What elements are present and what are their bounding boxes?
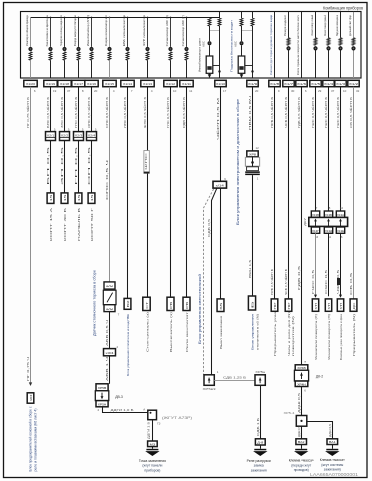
cluster lamp column R17 [328, 12, 330, 78]
park brake switch SA1 [103, 290, 116, 305]
svg-text:ЧЁРН 0,5 М: ЧЁРН 0,5 М [216, 97, 220, 140]
svg-text:Указат повор правый: Указат повор правый [323, 15, 327, 36]
svg-text:РВ: РВ [169, 301, 173, 308]
connector pin Х1/16 [85, 80, 98, 86]
wire W11e [260, 385, 262, 439]
wire W6a [109, 312, 111, 349]
block arrow 16 [314, 219, 317, 222]
svg-text:Х1/4: Х1/4 [324, 82, 333, 86]
grey link node 11 [210, 30, 220, 32]
ground G3 [301, 445, 303, 449]
svg-text:ДС: ДС [352, 303, 356, 310]
svg-text:ЖПС 0,5 ЧЁРН Б: ЖПС 0,5 ЧЁРН Б [143, 97, 147, 128]
cluster lamp column L9 [170, 17, 172, 19]
svg-text:СБ 0,5 ЧЁРН Б: СБ 0,5 ЧЁРН Б [349, 97, 353, 128]
svg-text:Резерв индикат: Резерв индикат [283, 14, 287, 36]
relay K2 connector lower [295, 381, 308, 387]
svg-text:(жгут системы: (жгут системы [321, 463, 344, 467]
svg-text:ГП 0,5: ГП 0,5 [74, 146, 78, 185]
indicator lamp HL12 [240, 41, 244, 45]
svg-text:ЛПС 0,5 ЧЁРН Б: ЛПС 0,5 ЧЁРН Б [123, 97, 127, 128]
wire W11 [220, 87, 222, 182]
svg-text:ХР5-4: ХР5-4 [284, 411, 295, 415]
wire W17 lower [328, 233, 330, 296]
svg-text:СЖС 0,5: СЖС 0,5 [324, 269, 328, 294]
connector pin Х1/14 [121, 80, 134, 86]
svg-text:Сигнал руч торм и уровня тормо: Сигнал руч торм и уровня тормозн жидк [269, 14, 273, 75]
svg-text:АБС: АБС [234, 41, 238, 47]
svg-text:ГПС 0,5 ЧЁРН Б: ГПС 0,5 ЧЁРН Б [74, 97, 78, 128]
svg-text:СПС 0,5 ЧЁРН Б: СПС 0,5 ЧЁРН Б [105, 97, 109, 128]
svg-text:а/м: а/м [106, 284, 113, 288]
svg-text:Клемма «масса»: Клемма «масса» [289, 459, 314, 463]
cluster lamp column R16 [315, 12, 317, 78]
svg-text:а/м: а/м [106, 307, 113, 311]
svg-text:ЕВА сигнализатор: ЕВА сигнализатор [122, 15, 126, 46]
cluster lamp column R15 [301, 12, 303, 78]
svg-text:АБВ 0,5 Ч: АБВ 0,5 Ч [105, 320, 109, 346]
wire W4 [78, 87, 80, 193]
svg-text:Х1/19: Х1/19 [46, 82, 55, 86]
splice box ХЗ [148, 410, 157, 420]
svg-text:ГЖС 0,5: ГЖС 0,5 [311, 269, 315, 294]
svg-text:Стоп-сигналы (з): Стоп-сигналы (з) [145, 312, 149, 352]
svg-text:Боковые указ поворота и фон: Боковые указ поворота и фон [339, 314, 343, 360]
wire W2 [50, 87, 52, 193]
wire W5 [91, 87, 93, 193]
instrument cluster box U1 [21, 12, 362, 79]
svg-text:ОП 0,5: ОП 0,5 [87, 146, 91, 185]
wire W11d dashed [204, 189, 214, 375]
svg-text:ЧСБ 0,5 ЧЁРН Б: ЧСБ 0,5 ЧЁРН Б [284, 97, 288, 128]
terminal T3 [61, 193, 68, 204]
connector pin Х1/9 [247, 80, 258, 86]
svg-text:УП: УП [339, 303, 343, 310]
svg-text:Реле разгрузки: Реле разгрузки [247, 459, 271, 463]
svg-text:отопителя в сб (N): отопителя в сб (N) [255, 314, 259, 350]
svg-text:Х1/14: Х1/14 [123, 82, 132, 86]
svg-text:ГДБ 0,5 ЧЁРН Б: ГДБ 0,5 ЧЁРН Б [297, 97, 301, 128]
svg-text:УП: УП [327, 303, 331, 310]
ground lug box G3 [296, 439, 307, 445]
connector box X14 [213, 181, 227, 188]
bulb socket lower [247, 167, 259, 171]
wire W17 upper [328, 87, 330, 211]
terminal T19 [350, 299, 357, 311]
wire W3 [64, 87, 66, 193]
svg-text:Х2/2: Х2/2 [61, 133, 69, 137]
svg-text:Указатели поворота (Л): Указатели поворота (Л) [314, 314, 318, 360]
wire W8 [147, 87, 149, 298]
svg-text:15: 15 [90, 194, 94, 202]
svg-text:Блок управления электропакетом: Блок управления электропакетом и диагнос… [236, 99, 240, 225]
cluster lamp column L3 [64, 17, 66, 19]
svg-text:Указатели поворота (П): Указатели поворота (П) [327, 314, 331, 360]
bulb socket body [245, 157, 259, 166]
svg-text:УП: УП [314, 303, 318, 310]
svg-text:Клемма «масса»: Клемма «масса» [320, 458, 345, 462]
svg-text:СДБ 0,5: СДБ 0,5 [207, 218, 211, 237]
cluster lamp column R18 [340, 12, 342, 78]
wire W18 lower [340, 233, 342, 296]
wire W11b to terminal [220, 188, 222, 299]
svg-text:реле и плавкими вставками (К6: реле и плавкими вставками (К6 лист 4) [34, 409, 38, 472]
svg-text:Блок предохранителей основной: Блок предохранителей основной в сборе с [28, 406, 32, 471]
block pin lower Х13Г [311, 227, 319, 233]
svg-text:проводов): проводов) [294, 468, 309, 472]
wire W18 upper [340, 87, 342, 211]
svg-text:Указат повор левый: Указат повор левый [310, 15, 314, 36]
inline connector Х2/3 [74, 132, 84, 141]
svg-text:ПГ 0,75 Ч: ПГ 0,75 Ч [26, 357, 30, 381]
svg-text:10: 10 [340, 206, 344, 210]
block pin upper Х13А [336, 211, 344, 217]
svg-text:ПГ 0,75 ЧЁРН Б: ПГ 0,75 ЧЁРН Б [26, 97, 30, 128]
connector pin Х1/4 [323, 80, 334, 86]
svg-text:поворотов (N): поворотов (N) [291, 316, 295, 356]
terminal T14 [285, 299, 292, 311]
wire W15b left [301, 426, 303, 439]
svg-text:замка: замка [254, 464, 264, 468]
svg-text:ДДШ 0,5: ДДШ 0,5 [328, 424, 332, 437]
ground lug box G4 [327, 439, 338, 445]
svg-text:Выкл зажигания: Выкл зажигания [219, 316, 223, 349]
wire W16 lower [315, 233, 317, 296]
svg-text:Х1/18: Х1/18 [60, 82, 69, 86]
inline connector X3/4 [104, 349, 116, 356]
svg-text:Наружное освещение: Наружное освещение [335, 15, 339, 36]
link wire 12 [245, 65, 253, 67]
svg-text:ХР5Н: ХР5Н [98, 402, 107, 406]
svg-text:ГДБ 0,5: ГДБ 0,5 [297, 265, 301, 290]
terminal T11 [217, 299, 224, 312]
connector pin Х1/17 [72, 80, 85, 86]
cluster lamp column L4 [78, 17, 80, 19]
svg-text:LAА665А070000001: LAА665А070000001 [310, 472, 359, 477]
ground G1 [152, 447, 154, 449]
inline connector Х2/4 [87, 132, 97, 141]
block arrow 17 [327, 219, 330, 222]
wire W11c solid to relay [212, 188, 217, 375]
svg-text:(ЖГУТ А73Р): (ЖГУТ А73Р) [162, 416, 192, 420]
svg-text:Х1/2: Х1/2 [349, 82, 358, 86]
svg-text:ЗП 0,5: ЗП 0,5 [60, 146, 64, 185]
cluster lamp column R19 [353, 12, 355, 78]
inline connector Х2/2 [60, 132, 70, 141]
arrow to pin 12 [241, 73, 243, 75]
svg-text:Блок управления отопителем и к: Блок управления отопителем и конд НВА [126, 313, 130, 376]
cluster lamp column L1 [30, 18, 32, 47]
svg-text:Выключатель (з): Выключатель (з) [169, 312, 173, 352]
relay K3 connector upper [96, 384, 108, 391]
bulb socket connector ХР8 [247, 151, 258, 157]
svg-text:зажигания: зажигания [251, 468, 267, 472]
svg-text:БП 0,5: БП 0,5 [46, 146, 50, 185]
terminal T2 [47, 193, 54, 204]
svg-text:ЭУР сигнализатор: ЭУР сигнализатор [142, 15, 146, 46]
svg-text:Х1/3: Х1/3 [336, 82, 345, 86]
relay K3 [95, 391, 109, 401]
relay connector ХР5В3 [204, 375, 214, 386]
ground G2 [260, 445, 262, 449]
svg-text:МЗ: МЗ [150, 442, 156, 446]
svg-text:ЖПС: ЖПС [144, 153, 148, 170]
wire W15a [301, 387, 303, 416]
svg-text:ХР5н: ХР5н [255, 370, 265, 374]
svg-text:ВК: ВК [126, 300, 130, 308]
cluster lamp column L10 [186, 17, 188, 19]
svg-text:Прерыватель (N): Прерыватель (N) [352, 314, 356, 356]
relay K3 connector lower [96, 401, 108, 407]
cluster lamp column R13 [274, 12, 276, 78]
wire W14 [288, 87, 290, 299]
switch connector upper [104, 282, 115, 289]
svg-text:ПРБ 0,5 ЧЁРН Б: ПРБ 0,5 ЧЁРН Б [270, 97, 274, 128]
svg-text:Х13А: Х13А [337, 213, 344, 217]
svg-text:(жгут панели: (жгут панели [142, 464, 162, 468]
svg-text:Прерыватель указ: Прерыватель указ [273, 311, 277, 356]
svg-text:БПС 0,5 ЧЁРН Б: БПС 0,5 ЧЁРН Б [46, 97, 50, 128]
svg-text:19: 19 [53, 89, 57, 93]
svg-text:ХР5в3: ХР5в3 [203, 387, 216, 391]
link wire 11 [213, 65, 220, 67]
svg-text:ГЖС 0,5 ЧЁРН Б: ГЖС 0,5 ЧЁРН Б [311, 97, 315, 128]
svg-text:СПС 0,5 Ч: СПС 0,5 Ч [105, 160, 109, 200]
wire W10 [186, 87, 188, 298]
svg-text:Х1/9: Х1/9 [248, 82, 257, 86]
wire W15 [301, 87, 303, 365]
svg-text:ВА2: ВА2 [298, 440, 305, 444]
terminal T7 [124, 298, 131, 309]
svg-text:ПРБ 0,5 ЧЁРН Б: ПРБ 0,5 ЧЁРН Б [270, 269, 274, 295]
svg-text:ПР: ПР [273, 302, 277, 309]
svg-text:65: 65 [219, 302, 223, 310]
svg-text:КОНТ 15 А: КОНТ 15 А [49, 206, 53, 241]
wire link grey [214, 380, 255, 382]
arrow to pin 11 [209, 73, 211, 75]
warning module group U12 [241, 12, 243, 18]
svg-text:Х2/1: Х2/1 [47, 133, 55, 137]
svg-text:РДВ 0,5 ЧЁРН Б: РДВ 0,5 ЧЁРН Б [182, 97, 186, 128]
block pin upper Х13В [311, 211, 319, 217]
svg-text:15: 15 [49, 194, 53, 202]
wire W15c right [307, 422, 333, 439]
svg-text:Х1/12: Х1/12 [166, 82, 175, 86]
cluster lamp column L7 [127, 17, 129, 19]
connector pin Х1/5 [310, 80, 321, 86]
svg-text:Х1/5: Х1/5 [311, 82, 320, 86]
ground lug box G2 [255, 439, 265, 445]
svg-text:20: 20 [255, 89, 259, 93]
driver box A11 [206, 56, 213, 73]
wire W1 fuse feed [30, 87, 32, 383]
wire W12b [252, 175, 254, 296]
inline splice S8 [144, 151, 149, 174]
svg-text:30: 30 [29, 394, 33, 402]
svg-text:А: А [143, 407, 145, 411]
wire W6 park brake [109, 87, 111, 282]
svg-text:Ремни безопасн не пристёгнуты: Ремни безопасн не пристёгнуты [45, 15, 49, 47]
svg-text:Х1/17: Х1/17 [74, 82, 83, 86]
terminal T12 [248, 296, 255, 310]
internal supply bus [31, 17, 220, 19]
block pin lower Х13Д [324, 227, 332, 233]
svg-text:Х1/8: Х1/8 [270, 82, 279, 86]
connector pin Х1/18 [58, 80, 71, 86]
svg-text:Х13Д: Х13Д [325, 229, 332, 233]
svg-text:Х13Б: Х13Б [325, 213, 332, 217]
svg-text:20: 20 [94, 89, 98, 93]
svg-text:КОНТ 50 Г: КОНТ 50 Г [90, 207, 94, 241]
terminal T4 [75, 193, 82, 204]
svg-text:ХР5В: ХР5В [98, 386, 107, 390]
svg-text:15: 15 [63, 194, 67, 202]
svg-text:17: 17 [223, 89, 227, 93]
svg-text:ГЖС 0,5 ЧЁРН Б: ГЖС 0,5 ЧЁРН Б [336, 97, 340, 128]
svg-text:12: 12 [255, 146, 259, 150]
svg-text:Комбинация приборов: Комбинация приборов [323, 5, 363, 11]
svg-text:Х2/4: Х2/4 [88, 133, 96, 137]
svg-text:ЧСБ 0,5 ЧЁРН Б: ЧСБ 0,5 ЧЁРН Б [284, 269, 288, 295]
svg-text:15: 15 [77, 194, 81, 202]
relay K2 connector upper [295, 365, 308, 371]
svg-text:Перегрев охлажд жидкости: Перегрев охлажд жидкости [59, 15, 63, 46]
terminal T17 [325, 299, 331, 311]
svg-text:Резервн сигнализатор вкл: Резервн сигнализатор вкл [104, 15, 108, 46]
svg-text:Х1/13: Х1/13 [143, 82, 152, 86]
svg-text:Сигнализатор АБС (Т): Сигнализатор АБС (Т) [181, 15, 185, 46]
svg-text:Иммобилайзер (АПС): Иммобилайзер (АПС) [86, 15, 90, 46]
svg-text:10: 10 [343, 89, 347, 93]
svg-text:Сигн превыш скорости авто боле: Сигн превыш скорости авто более км/ч [296, 15, 300, 75]
connector pin Х1/13 [141, 80, 154, 86]
driver box A12 [238, 56, 245, 73]
cluster lamp column L5 [91, 17, 93, 19]
svg-text:НВМ 0,5 БЧ: НВМ 0,5 БЧ [248, 96, 252, 130]
svg-text:Блок управления светотехникой: Блок управления светотехникой [198, 274, 202, 344]
wire W9 [170, 87, 172, 298]
svg-text:32: 32 [356, 89, 360, 93]
svg-text:Х13Е: Х13Е [337, 229, 344, 233]
wire W6c to ground run [103, 407, 148, 413]
svg-text:ГЖС 0,5 ЧЁРН Б: ГЖС 0,5 ЧЁРН Б [324, 97, 328, 128]
svg-text:Монитор из общего провода: Монитор из общего провода [25, 15, 29, 46]
cluster lamp column L2 [50, 17, 52, 19]
wire W7 [127, 87, 129, 299]
svg-text:Точка заземления: Точка заземления [139, 459, 166, 463]
svg-text:Х13Г: Х13Г [312, 229, 320, 233]
connector pin Х1/6 [296, 80, 307, 86]
block body [309, 217, 348, 226]
svg-text:Х1/16: Х1/16 [87, 82, 96, 86]
warning module group U11 [219, 12, 221, 18]
svg-text:АБВ 1 Ч: АБВ 1 Ч [105, 357, 109, 381]
svg-text:ХР4В: ХР4В [297, 366, 306, 370]
svg-text:(передн жгут: (передн жгут [291, 464, 311, 468]
svg-text:Реле вентилят: Реле вентилят [185, 311, 189, 352]
wire W16 upper [315, 87, 317, 211]
connector pin Х1/3 [335, 80, 346, 86]
connector pin Х1/10 [215, 80, 226, 86]
svg-text:ПАНЕЛЬ В: ПАНЕЛЬ В [77, 208, 81, 241]
cluster lamp column R14 [288, 12, 290, 78]
svg-text:ПР: ПР [287, 302, 291, 309]
svg-text:11: 11 [189, 89, 192, 93]
wire W6b [109, 356, 111, 384]
svg-text:х/14: х/14 [216, 183, 225, 187]
svg-text:Сигнализатор АБС (К): Сигнализатор АБС (К) [165, 15, 169, 46]
terminal T5 [88, 193, 95, 204]
wire W19 [353, 87, 355, 299]
block pin upper Х13Б [324, 211, 332, 217]
terminal T16 [312, 299, 318, 311]
terminal T9 [167, 297, 174, 310]
svg-text:ГЗ: ГЗ [157, 422, 161, 426]
svg-text:ДВ-3: ДВ-3 [115, 395, 123, 399]
svg-text:СТ: СТ [145, 301, 149, 309]
block pin lower Х13Е [336, 227, 344, 233]
cluster lamp column L6 [109, 17, 111, 19]
relay K2 [294, 370, 308, 381]
svg-text:Х1/20: Х1/20 [26, 82, 35, 86]
svg-text:Х1/6: Х1/6 [297, 82, 306, 86]
svg-text:ВА1: ВА1 [329, 440, 336, 444]
svg-text:Х13В: Х13В [312, 213, 319, 217]
svg-text:ОПС 0,5 ЧЁРН Б: ОПС 0,5 ЧЁРН Б [87, 97, 91, 128]
svg-text:ХР4Н: ХР4Н [297, 382, 306, 386]
terminal T18 [337, 299, 343, 311]
svg-text:ДДГИ 1,0 Б: ДДГИ 1,0 Б [111, 408, 134, 412]
svg-text:37: 37 [331, 89, 335, 93]
fuse box F1 [27, 393, 34, 403]
svg-text:ГЛС 0,5 ЧЁРН Б: ГЛС 0,5 ЧЁРН Б [166, 97, 170, 128]
svg-text:ДК-2: ДК-2 [316, 375, 323, 379]
cluster lamp column L8 [147, 17, 149, 19]
connector pin Х1/8 [269, 80, 280, 86]
connector pin Х1/19 [44, 80, 57, 86]
connector pin Х1/12 [164, 80, 177, 86]
svg-text:АБС: АБС [202, 41, 206, 47]
svg-text:Датчик стояночного тормоза в с: Датчик стояночного тормоза в сборе [93, 270, 97, 336]
indicator lamp HL11 [208, 41, 212, 45]
svg-text:10: 10 [173, 89, 177, 93]
ground G4 [332, 445, 334, 449]
terminal T13 [271, 299, 278, 311]
svg-text:ХР8: ХР8 [249, 152, 257, 156]
grey link node 12 [242, 30, 253, 32]
connector pin Х1/11 [180, 80, 193, 86]
svg-text:ДДШ 0,5: ДДШ 0,5 [297, 426, 301, 437]
ground lug box G1 [148, 441, 158, 447]
svg-text:Блок управления: Блок управления [251, 314, 255, 350]
svg-text:Разряд аккумулят батареи: Разряд аккумулят батареи [73, 15, 77, 46]
svg-text:Х2/3: Х2/3 [75, 133, 83, 137]
wire W6d [152, 420, 154, 441]
svg-text:Дальний свет фар: Дальний свет фар [348, 15, 352, 36]
svg-text:ДДГИ 1 Б: ДДГИ 1 Б [147, 422, 151, 439]
svg-text:ВЖН 1,5: ВЖН 1,5 [248, 260, 252, 278]
connector pin Х1/20 [24, 80, 37, 86]
svg-text:КОНТ 30 Б: КОНТ 30 Б [63, 208, 67, 241]
switch connector lower [104, 305, 115, 312]
svg-text:37: 37 [67, 89, 71, 93]
connector pin Х1/2 [348, 80, 359, 86]
svg-text:Б: Б [250, 301, 254, 309]
wire W13 [274, 87, 276, 299]
svg-text:СДБ 1 Б: СДБ 1 Б [256, 418, 260, 436]
svg-text:СБ 0,5: СБ 0,5 [349, 272, 353, 295]
svg-text:Х1/10: Х1/10 [216, 82, 225, 86]
